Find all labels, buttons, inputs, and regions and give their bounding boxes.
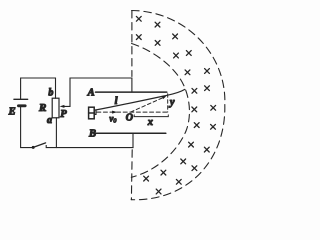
- field cross x20: [144, 176, 149, 181]
- outer field arc: [131, 11, 225, 200]
- dashed vertical y segment at plate end: [167, 94, 169, 112]
- wire: resistor bottom lead a to bottom wire: [55, 118, 57, 148]
- wire: connector down to plate A: [131, 78, 133, 92]
- plate A: [96, 91, 167, 93]
- dashed chord from O to exit point: [131, 97, 165, 112]
- field cross x23: [156, 189, 161, 194]
- potentiometer wiper arrow P: [60, 105, 70, 108]
- field cross x3: [136, 35, 141, 40]
- svg-text:a: a: [47, 115, 52, 126]
- switch blade: [33, 143, 45, 148]
- battery E short plate: [18, 104, 25, 107]
- svg-text:A: A: [87, 87, 95, 98]
- field cross x13: [211, 105, 216, 110]
- wire: plate B connector down to bottom wire: [132, 133, 134, 147]
- field cross x12: [192, 107, 197, 112]
- svg-text:R: R: [38, 102, 46, 114]
- field boundary dashed vertical lower: [130, 150, 133, 200]
- wire: bottom from switch to plate B connector: [46, 146, 133, 148]
- field cross x17: [204, 147, 209, 152]
- trajectory in plates: [96, 89, 185, 110]
- field cross x22: [176, 179, 181, 184]
- field cross x15: [211, 124, 216, 129]
- field cross x6: [174, 53, 179, 58]
- x measurement bracket: [134, 115, 168, 117]
- field cross x4: [155, 41, 160, 46]
- chord arrowhead: [162, 96, 166, 99]
- plate B: [96, 132, 166, 134]
- svg-text:b: b: [48, 88, 53, 99]
- wire: top-left from battery to resistor top: [21, 78, 56, 99]
- resistor R body: [52, 98, 59, 118]
- field cross x1: [136, 16, 141, 21]
- electron gun body: [89, 107, 96, 119]
- field cross x19: [192, 166, 197, 171]
- wire: wiper up and right to plate A connector: [70, 78, 132, 106]
- switch dot: [32, 146, 35, 149]
- wire: battery negative down to bottom wire: [21, 106, 33, 148]
- svg-text:P: P: [60, 109, 67, 120]
- field cross x11: [205, 86, 210, 91]
- svg-text:x: x: [147, 117, 153, 128]
- field cross x18: [181, 159, 186, 164]
- field cross x9: [205, 69, 210, 74]
- field cross x14: [194, 123, 199, 128]
- field cross x8: [185, 70, 190, 75]
- field cross x16: [189, 142, 194, 147]
- field cross x7: [186, 51, 191, 56]
- field cross x21: [161, 170, 166, 175]
- svg-text:l: l: [115, 96, 118, 107]
- svg-text:O: O: [126, 112, 133, 123]
- field cross x10: [192, 88, 197, 93]
- v0 axis dashed line: [97, 111, 169, 113]
- v0 arrowhead: [112, 111, 117, 114]
- svg-text:B: B: [88, 129, 96, 140]
- field cross x5: [173, 34, 178, 39]
- inner field arc: [131, 44, 189, 178]
- field cross x2: [155, 22, 160, 27]
- svg-text:E: E: [8, 107, 16, 118]
- svg-text:y: y: [168, 97, 175, 108]
- svg-text:0: 0: [113, 119, 116, 125]
- field boundary dashed vertical upper: [131, 11, 133, 77]
- battery E long plate: [14, 98, 28, 100]
